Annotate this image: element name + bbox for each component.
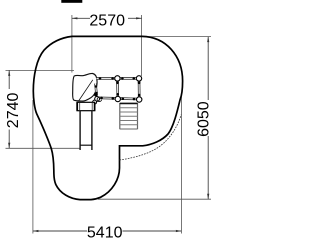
platform roof (blob) — [73, 73, 97, 101]
dimension 6050 extension line top — [144, 36, 211, 38]
post bottom-mid — [115, 96, 120, 101]
dimension 5410 extension line left — [32, 100, 34, 234]
small post at slide entry — [93, 100, 97, 104]
roof ridge line — [79, 80, 93, 101]
small hook right of post — [97, 97, 101, 101]
safety-zone outline (thick) — [33, 36, 182, 199]
slide right side — [91, 111, 93, 150]
frame rail bottom — [97, 98, 139, 99]
dimension 2570 arrows — [72, 17, 78, 19]
frame rail left (blob to post) — [95, 84, 96, 94]
dimension 6050 line — [207, 37, 209, 100]
dimension 2740 extension line bottom — [6, 147, 81, 149]
dimension 5410 line — [33, 230, 87, 232]
dimension 2570 line — [72, 17, 90, 19]
clamp dot at blob corner — [94, 93, 98, 97]
slide end cap — [80, 144, 93, 146]
dimension 2740 extension line top — [6, 69, 75, 71]
frame rail right vertical — [138, 78, 141, 99]
post top-mid — [115, 76, 120, 81]
top black bar (cropped logo) — [61, 0, 82, 3]
dimension 6050 extension line bottom — [98, 198, 211, 200]
rail clamp dots — [95, 77, 141, 100]
svg-text:2570: 2570 — [89, 12, 125, 29]
dimension 2740 arrows — [8, 70, 10, 76]
dashed inner curve (slide run-out) — [120, 115, 182, 161]
steps box below platform — [77, 102, 95, 110]
dimension 2570 extension line right — [141, 15, 143, 76]
post top-right — [136, 76, 141, 81]
frame rail mid vertical — [116, 78, 119, 98]
post bottom-left — [95, 97, 100, 102]
frame rail top — [97, 77, 140, 80]
svg-text:2740: 2740 — [5, 93, 22, 129]
dimension 2570 extension line left — [71, 15, 73, 73]
dimension 6050 arrows — [207, 37, 209, 43]
slide left side — [79, 111, 81, 150]
dimension 5410 extension line right — [180, 97, 182, 234]
svg-text:6050: 6050 — [196, 101, 213, 137]
dimension 2740 line — [8, 70, 10, 89]
svg-text:5410: 5410 — [87, 225, 123, 240]
post bottom-right — [137, 97, 142, 102]
dimension 5410 arrows — [33, 230, 39, 232]
ladder (below right cell) — [120, 103, 138, 129]
